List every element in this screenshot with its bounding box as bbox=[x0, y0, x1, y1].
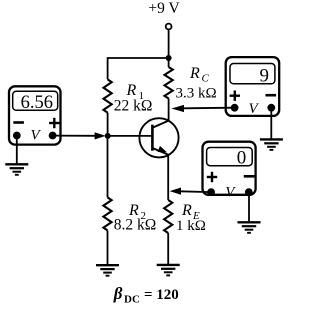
wire RE to ground bbox=[167, 233, 169, 265]
resistor RC bbox=[165, 67, 173, 99]
svg-text:1 kΩ: 1 kΩ bbox=[176, 218, 206, 234]
voltmeter M3 plus sign bbox=[207, 172, 217, 182]
voltmeter M3 body (0) bbox=[203, 142, 256, 195]
resistor R2 bbox=[103, 197, 111, 230]
voltmeter M2 body (9) bbox=[226, 57, 280, 116]
voltmeter M2 minus sign bbox=[266, 94, 277, 97]
resistor RE bbox=[164, 200, 172, 233]
voltmeter M2 display bbox=[230, 64, 275, 84]
voltmeter M1 minus sign bbox=[13, 121, 24, 124]
wire M3 to emitter node bbox=[180, 190, 211, 193]
voltmeter M1 display bbox=[13, 91, 58, 110]
svg-text:= 120: = 120 bbox=[144, 287, 179, 303]
wire M2 negative to ground bbox=[270, 108, 272, 140]
wire junction to RC bbox=[168, 58, 170, 67]
ground RE bbox=[157, 265, 180, 276]
transistor Q1 circle bbox=[139, 118, 178, 157]
wire base node to R2 bbox=[107, 136, 109, 198]
svg-text:9: 9 bbox=[260, 66, 270, 87]
voltmeter M1 negative terminal bbox=[13, 132, 21, 140]
arrow M2 lead bbox=[171, 105, 184, 112]
transistor emitter arrowhead bbox=[158, 146, 167, 152]
wire M1 to base node bbox=[53, 135, 96, 137]
voltmeter M1 body (6.56) bbox=[9, 86, 61, 144]
arrow M1 lead bbox=[95, 132, 106, 139]
svg-text:0: 0 bbox=[237, 148, 247, 169]
wire left rail to R1 bbox=[107, 57, 109, 79]
supply terminal circle bbox=[166, 24, 172, 30]
wire top horizontal bbox=[108, 57, 169, 59]
svg-text:3.3 kΩ: 3.3 kΩ bbox=[176, 86, 217, 102]
voltmeter M3 negative terminal bbox=[245, 188, 253, 196]
arrow M3 lead bbox=[170, 188, 181, 195]
svg-text:β: β bbox=[113, 284, 123, 303]
svg-text:+9 V: +9 V bbox=[148, 0, 180, 17]
wire base lead bbox=[108, 135, 153, 137]
wire supply to junction bbox=[168, 29, 170, 58]
wire M2 to collector node bbox=[183, 107, 235, 110]
transistor emitter diagonal bbox=[152, 148, 168, 155]
svg-text:C: C bbox=[202, 73, 210, 85]
wire RC to collector bbox=[168, 99, 170, 122]
voltmeter M3 minus sign bbox=[244, 175, 255, 178]
svg-text:R: R bbox=[189, 65, 200, 82]
svg-text:DC: DC bbox=[124, 294, 140, 306]
voltmeter M2 negative terminal bbox=[267, 104, 275, 112]
voltmeter M1 positive terminal bbox=[49, 132, 57, 140]
voltmeter M3 display bbox=[207, 148, 253, 166]
voltmeter M1 plus sign bbox=[49, 118, 59, 128]
transistor collector diagonal bbox=[152, 121, 168, 128]
wire R2 to ground bbox=[107, 230, 109, 265]
junction dot top bbox=[166, 55, 172, 61]
transistor Q1 base bar bbox=[151, 125, 154, 151]
voltmeter M3 positive terminal bbox=[207, 188, 215, 196]
svg-text:22 kΩ: 22 kΩ bbox=[114, 98, 153, 115]
wire M3 negative to ground bbox=[248, 192, 250, 222]
svg-text:R: R bbox=[126, 82, 137, 99]
wire M1 negative to ground bbox=[16, 136, 18, 165]
svg-text:8.2 kΩ: 8.2 kΩ bbox=[114, 217, 157, 234]
ground M1 bbox=[5, 164, 28, 175]
node B junction dot bbox=[105, 133, 111, 139]
svg-text:6.56: 6.56 bbox=[21, 93, 53, 113]
voltmeter M2 plus sign bbox=[230, 91, 240, 101]
wire emitter down bbox=[167, 154, 169, 200]
resistor R1 bbox=[104, 79, 112, 112]
ground R2 bbox=[96, 265, 119, 276]
wire R1 to base node bbox=[107, 113, 109, 136]
svg-text:R: R bbox=[181, 202, 192, 219]
ground M3 bbox=[238, 222, 261, 233]
ground M2 bbox=[260, 139, 283, 150]
voltmeter M2 positive terminal bbox=[231, 104, 239, 112]
